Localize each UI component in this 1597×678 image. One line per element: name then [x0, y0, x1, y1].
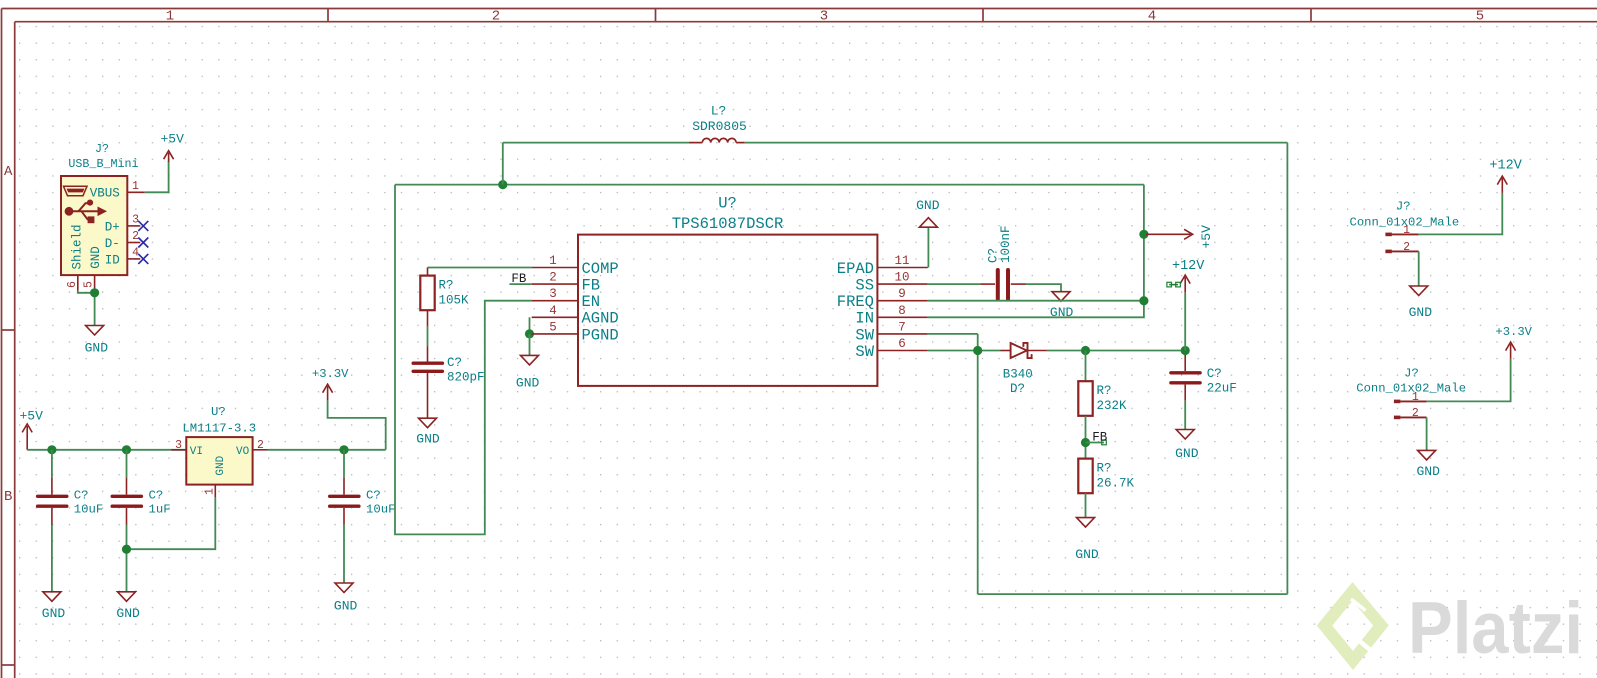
U2 pin 4 AGND — [532, 316, 578, 318]
wire FB stub — [510, 283, 532, 285]
wire pin5 down to gnd — [94, 291, 96, 326]
wire VBUS to +5V — [145, 161, 169, 192]
svg-text:5: 5 — [549, 320, 557, 334]
wire AGND to PGND — [529, 317, 531, 334]
svg-text:6: 6 — [898, 337, 906, 351]
wire EN loop left vertical — [395, 185, 532, 535]
diode D1 B340 leads — [1001, 350, 1047, 352]
capacitor C1 10uF plates — [38, 496, 67, 506]
regulator U1 LM1117-3.3 body — [186, 437, 252, 485]
J3 pin 2 male symbol — [1394, 416, 1427, 420]
svg-text:105K: 105K — [439, 293, 470, 307]
power +12V symbol (C6 node) — [1180, 275, 1190, 293]
junction rail C2 — [122, 445, 131, 454]
U1 pin 2 VO lead — [253, 449, 268, 451]
wire PGND to gnd — [529, 334, 531, 356]
wire 3.3V jog — [328, 400, 386, 449]
junction SW node — [973, 346, 982, 355]
wire down to R2 — [1085, 351, 1087, 382]
svg-text:10uF: 10uF — [366, 502, 396, 516]
svg-text:+5V: +5V — [1199, 225, 1214, 249]
ground symbol (C5) — [1052, 292, 1070, 302]
USB trident icon — [65, 200, 107, 224]
svg-text:FB: FB — [582, 277, 601, 295]
svg-text:R?: R? — [439, 278, 454, 292]
svg-text:5: 5 — [1476, 9, 1484, 25]
ground symbol (C1) — [43, 592, 61, 602]
U2 pin 3 EN — [532, 300, 578, 302]
svg-text:A: A — [4, 164, 13, 180]
svg-text:4: 4 — [132, 247, 139, 260]
watermark logo diamond — [1325, 592, 1382, 661]
U2 pin 8 IN — [877, 316, 927, 318]
capacitor C6 22uF plates — [1171, 373, 1200, 383]
capacitor C4 820pF plates — [413, 363, 442, 371]
no-connect X on D+ — [138, 221, 148, 231]
junction PGND — [525, 329, 534, 338]
svg-text:SDR0805: SDR0805 — [692, 119, 747, 134]
svg-text:GND: GND — [89, 246, 103, 269]
wire FREQ to +5V — [928, 300, 1144, 302]
svg-text:FREQ: FREQ — [837, 293, 874, 311]
U2 pin 9 FREQ — [877, 300, 927, 302]
svg-text:2: 2 — [257, 439, 264, 452]
svg-text:2: 2 — [1412, 407, 1419, 420]
svg-text:IN: IN — [855, 310, 874, 328]
svg-text:GND: GND — [1409, 305, 1433, 320]
capacitor C4 820pF leads — [427, 347, 429, 390]
wire SW loop right vertical — [1286, 143, 1288, 594]
wire VO to 3.3V rail — [268, 449, 386, 451]
ground symbol (PGND) — [521, 355, 539, 365]
wire rail to C3 — [343, 450, 345, 478]
svg-text:4: 4 — [1148, 9, 1156, 25]
ground symbol (J3) — [1418, 450, 1436, 460]
ground symbol up (EPAD) — [919, 218, 937, 228]
svg-text:1: 1 — [1412, 391, 1419, 404]
wire C4 to gnd — [427, 390, 429, 419]
ground symbol (J2) — [1410, 286, 1428, 296]
svg-text:1: 1 — [132, 180, 139, 193]
diode D1 schottky bar — [1023, 343, 1031, 358]
svg-text:GND: GND — [215, 455, 227, 475]
svg-text:LM1117-3.3: LM1117-3.3 — [182, 421, 256, 435]
svg-text:R?: R? — [1097, 461, 1112, 475]
U1 pin 1 GND lead — [214, 485, 216, 498]
wire U1 gnd to C2 gnd — [127, 497, 216, 549]
J1 pin 2 D- — [127, 242, 140, 244]
ground symbol (USB) — [86, 326, 104, 336]
ground symbol (C6) — [1176, 430, 1194, 440]
svg-text:+12V: +12V — [1172, 259, 1205, 274]
svg-text:+5V: +5V — [160, 131, 184, 146]
junction +5V branch — [1139, 230, 1148, 239]
svg-text:+12V: +12V — [1489, 159, 1522, 174]
wire SS to C5 — [928, 283, 981, 285]
J1 pin 3 D+ — [127, 225, 140, 227]
svg-text:1uF: 1uF — [149, 502, 171, 516]
power +12V symbol (J2) — [1497, 176, 1507, 193]
ground symbol (C3) — [335, 583, 353, 593]
svg-text:100nF: 100nF — [999, 225, 1013, 263]
resistor R1 105K body — [420, 276, 434, 311]
svg-text:SW: SW — [855, 326, 874, 344]
svg-text:GND: GND — [334, 599, 358, 614]
svg-text:9: 9 — [898, 287, 906, 301]
junction C2 gnd lead — [122, 545, 131, 554]
svg-text:C?: C? — [74, 488, 89, 502]
capacitor C5 100nF plates — [998, 270, 1008, 299]
wire R1 to C4 — [427, 327, 429, 347]
wire IN to +5V — [928, 185, 1144, 318]
dangling wire stub with end squares — [1167, 282, 1180, 287]
svg-text:GND: GND — [416, 432, 440, 447]
resistor R3 26.7K body — [1078, 459, 1092, 494]
svg-text:26.7K: 26.7K — [1097, 476, 1135, 490]
resistor R2 232K body — [1078, 381, 1092, 416]
svg-text:7: 7 — [898, 320, 906, 334]
wire COMP to R1 — [428, 267, 532, 269]
wire EPAD up to gnd — [927, 227, 929, 267]
svg-text:820pF: 820pF — [447, 371, 485, 385]
svg-text:VBUS: VBUS — [90, 187, 120, 201]
junction R2 tap — [1081, 346, 1090, 355]
svg-text:EN: EN — [582, 293, 601, 311]
svg-text:B: B — [4, 489, 12, 505]
U2 pin 2 FB — [532, 283, 578, 285]
svg-text:R?: R? — [1097, 384, 1112, 398]
svg-text:GND: GND — [116, 606, 140, 621]
svg-text:8: 8 — [898, 304, 906, 318]
ground symbol (R3) — [1077, 518, 1095, 528]
J1 pin 6 Shield lead — [77, 275, 79, 291]
USB plug icon — [64, 186, 88, 195]
svg-text:D+: D+ — [105, 220, 120, 234]
svg-text:232K: 232K — [1097, 399, 1128, 413]
J3 pin 1 male symbol — [1394, 400, 1427, 404]
U2 pin 10 SS — [877, 283, 927, 285]
svg-text:COMP: COMP — [582, 260, 619, 278]
svg-text:VI: VI — [190, 446, 203, 458]
svg-text:AGND: AGND — [582, 310, 619, 328]
wire J3 pin1 to +3.3V — [1427, 359, 1511, 402]
svg-text:C?: C? — [447, 356, 462, 370]
svg-text:GND: GND — [516, 375, 540, 390]
svg-text:3: 3 — [820, 9, 828, 25]
U2 pin 1 COMP — [532, 267, 578, 269]
J2 pin 1 male symbol — [1385, 233, 1418, 237]
wire C6 to gnd — [1184, 401, 1186, 430]
resistor R1 top lead — [427, 268, 429, 276]
wire diode to 12V node — [1047, 350, 1185, 352]
IC U2 TPS61087DSCR body — [578, 235, 877, 386]
ground symbol (C4) — [419, 418, 437, 428]
svg-text:C?: C? — [149, 488, 164, 502]
wire inductor rail right — [745, 142, 1288, 144]
wire C1 to gnd — [51, 525, 53, 592]
svg-text:Shield: Shield — [71, 224, 85, 269]
svg-text:6: 6 — [66, 281, 79, 288]
capacitor C3 10uF plates — [330, 496, 359, 506]
svg-text:FB: FB — [1092, 431, 1108, 445]
diode D1 B340 triangle — [1011, 343, 1027, 358]
svg-text:L?: L? — [711, 103, 727, 118]
svg-text:U?: U? — [211, 405, 226, 419]
U2 pin 11 EPAD — [877, 267, 927, 269]
U2 pin 5 PGND — [532, 333, 578, 335]
wire SW6 to diode — [928, 350, 1001, 352]
U2 pin 7 SW — [877, 333, 927, 335]
U1 pin 3 VI lead — [171, 449, 186, 451]
J1 pin 1 VBUS — [127, 191, 144, 193]
svg-text:GND: GND — [1416, 464, 1440, 479]
svg-text:SW: SW — [855, 343, 874, 361]
svg-text:SS: SS — [855, 277, 874, 295]
svg-text:EPAD: EPAD — [837, 260, 874, 278]
wire up to inductor rail — [502, 143, 504, 185]
wire FB stub (right) — [1086, 442, 1105, 444]
wire +12V to C6 node — [1184, 293, 1186, 351]
J2 pin 2 male symbol — [1385, 250, 1418, 254]
svg-text:J?: J? — [95, 142, 109, 156]
J1 pin 4 ID — [127, 258, 140, 260]
wire J2 pin1 to +12V — [1419, 193, 1503, 235]
power +3.3V symbol — [323, 384, 333, 400]
ground symbol (C2) — [118, 592, 136, 602]
capacitor C5 100nF leads — [980, 283, 1026, 285]
svg-text:B340: B340 — [1003, 367, 1033, 381]
svg-text:C?: C? — [1207, 367, 1222, 381]
capacitor C2 1uF leads — [126, 478, 128, 525]
svg-text:3: 3 — [132, 214, 139, 227]
no-connect X on D- — [138, 238, 148, 248]
svg-text:VO: VO — [236, 446, 250, 458]
wire R2 to FB node — [1085, 416, 1087, 459]
svg-text:Platzi: Platzi — [1408, 588, 1583, 669]
dangling end square FB stub — [1102, 440, 1107, 445]
svg-text:J?: J? — [1396, 200, 1411, 214]
svg-text:1: 1 — [1403, 224, 1410, 237]
capacitor C2 1uF plates — [112, 496, 141, 506]
svg-text:1: 1 — [204, 488, 217, 495]
wire shield to gnd — [78, 291, 95, 293]
svg-text:5: 5 — [83, 281, 96, 288]
power +3.3V symbol (J3) — [1506, 342, 1516, 359]
wire J2 pin2 to gnd — [1418, 251, 1420, 286]
svg-text:2: 2 — [492, 9, 500, 25]
svg-text:2: 2 — [1403, 241, 1410, 254]
svg-text:J?: J? — [1404, 366, 1419, 380]
svg-text:10: 10 — [894, 271, 909, 285]
svg-text:GND: GND — [916, 198, 940, 213]
wire J3 pin2 to gnd — [1426, 417, 1428, 450]
svg-text:+3.3V: +3.3V — [1495, 325, 1532, 339]
wire rail to C2 — [126, 450, 128, 478]
svg-text:D?: D? — [1010, 382, 1025, 396]
svg-text:ID: ID — [105, 253, 120, 267]
wire +5V rail — [27, 449, 186, 451]
svg-text:+3.3V: +3.3V — [312, 367, 349, 381]
svg-text:TPS61087DSCR: TPS61087DSCR — [672, 215, 784, 233]
svg-text:GND: GND — [1175, 446, 1199, 461]
svg-text:GND: GND — [85, 341, 109, 356]
svg-text:11: 11 — [894, 254, 909, 268]
connector J1 USB_B_Mini body — [61, 176, 127, 275]
inductor L1 SDR0805 — [689, 138, 745, 142]
wire SW loop bottom — [978, 593, 1288, 595]
no-connect X on ID — [138, 254, 148, 264]
J1 pin 5 GND lead — [94, 275, 96, 291]
power +5V symbol (USB) — [164, 151, 174, 162]
wire C3 to gnd — [343, 525, 345, 584]
svg-text:+5V: +5V — [19, 408, 43, 423]
svg-text:USB_B_Mini: USB_B_Mini — [68, 157, 138, 171]
junction inductor feed — [498, 180, 507, 189]
capacitor C3 10uF leads — [343, 478, 345, 525]
junction FB node — [1081, 438, 1090, 447]
capacitor C6 22uF leads — [1184, 355, 1186, 401]
junction rail C1 — [47, 445, 56, 454]
svg-text:1: 1 — [166, 9, 174, 25]
wire inductor rail left — [503, 142, 689, 144]
junction C6 tap — [1181, 346, 1190, 355]
svg-text:2: 2 — [132, 230, 139, 243]
wire C2 to gnd — [126, 525, 128, 592]
svg-text:1: 1 — [549, 254, 557, 268]
svg-text:3: 3 — [175, 439, 182, 452]
svg-text:GND: GND — [1075, 547, 1099, 562]
svg-text:D-: D- — [105, 237, 120, 251]
svg-text:3: 3 — [549, 287, 557, 301]
svg-text:22uF: 22uF — [1207, 382, 1237, 396]
svg-text:GND: GND — [42, 606, 66, 621]
resistor R1 bottom lead — [427, 310, 429, 327]
wire C5 to gnd — [1026, 284, 1061, 292]
power +5V symbol (right, horizontal) — [1146, 229, 1193, 239]
power +5V symbol (rail) — [22, 424, 32, 450]
svg-text:U?: U? — [718, 195, 737, 213]
junction FREQ branch — [1139, 296, 1148, 305]
junction USB gnd — [90, 288, 99, 297]
svg-text:2: 2 — [549, 271, 557, 285]
junction rail C3 — [339, 445, 348, 454]
wire +5V horizontal rail — [395, 184, 1144, 186]
svg-text:C?: C? — [366, 488, 381, 502]
wire SW loop left vertical — [977, 334, 979, 594]
svg-text:4: 4 — [549, 304, 557, 318]
wire R3 to gnd — [1085, 493, 1087, 517]
capacitor C1 10uF leads — [51, 478, 53, 525]
wire SW7 to SW loop — [928, 333, 978, 335]
U2 pin 6 SW — [877, 350, 927, 352]
wire rail to C1 — [51, 450, 53, 478]
svg-text:10uF: 10uF — [74, 502, 104, 516]
svg-text:PGND: PGND — [582, 326, 619, 344]
